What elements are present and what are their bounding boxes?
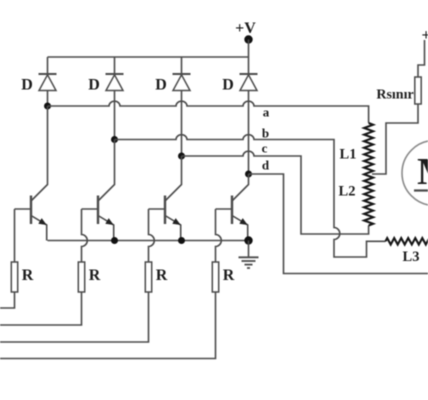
resistor R4 xyxy=(212,262,218,292)
wire phase a with hops, to coil L1 top xyxy=(48,101,369,123)
wire center tap to Rsinir bottom xyxy=(372,104,418,174)
svg-text:d: d xyxy=(262,158,270,173)
wire R4 to input 4 xyxy=(0,292,216,359)
resistor R3 xyxy=(145,262,151,292)
svg-text:L1: L1 xyxy=(340,147,357,163)
wire base Q2 down to resistor R2 (hop over emitter rail) xyxy=(82,209,88,262)
wire phase d to right edge xyxy=(249,174,428,274)
svg-text:+V: +V xyxy=(422,27,428,44)
diode D2 xyxy=(106,74,124,91)
diode D3 xyxy=(173,74,191,91)
wire emitter rail xyxy=(48,240,249,242)
wire base Q3 down to resistor R3 (hop over emitter rail) xyxy=(149,209,155,262)
svg-text:b: b xyxy=(262,126,269,141)
svg-text:M: M xyxy=(417,151,428,193)
svg-text:R: R xyxy=(223,267,235,284)
wire rail to diode D2 xyxy=(114,57,116,74)
svg-text:D: D xyxy=(155,77,167,94)
wire diode D1 to node a xyxy=(47,91,49,107)
wire R2 to input 2 xyxy=(0,292,82,325)
node emitter rail dot Q4 xyxy=(244,236,252,244)
ground xyxy=(239,241,259,269)
wire base Q4 down to resistor R4 (hop over emitter rail) xyxy=(216,209,222,262)
node emitter rail dot Q2 xyxy=(111,237,118,244)
svg-text:R: R xyxy=(89,267,101,284)
node a junction dot xyxy=(44,103,51,110)
wire base Q1 down to resistor R1 xyxy=(14,209,16,262)
motor M circle xyxy=(402,141,428,206)
wire phase c with hop, to coil L2 bottom xyxy=(182,151,369,234)
wire top supply rail xyxy=(48,56,249,58)
transistor Q3 xyxy=(149,156,182,241)
wire R1 to input 1 xyxy=(0,292,15,308)
svg-text:a: a xyxy=(263,105,270,120)
svg-text:R: R xyxy=(22,267,34,284)
node emitter rail dot Q3 xyxy=(178,237,185,244)
svg-text:L2: L2 xyxy=(339,184,356,200)
resistor Rsinir xyxy=(415,77,421,104)
wire rail to diode D3 xyxy=(181,57,183,74)
wire rail to diode D1 xyxy=(47,57,49,74)
svg-text:D: D xyxy=(222,77,234,94)
wire diode D3 to node c xyxy=(181,91,183,157)
transistor Q2 xyxy=(82,140,115,241)
svg-text:D: D xyxy=(21,77,33,94)
svg-text:+V: +V xyxy=(235,20,256,37)
inductor L3 zigzag xyxy=(386,238,428,244)
wire Rsinir top to +V right xyxy=(418,40,425,77)
node +V junction dot xyxy=(244,35,252,43)
svg-text:D: D xyxy=(88,77,100,94)
transistor Q1 xyxy=(15,106,48,241)
svg-text:Rsınır: Rsınır xyxy=(376,88,413,103)
node d junction dot xyxy=(245,171,252,178)
svg-text:R: R xyxy=(156,267,168,284)
wire diode D2 to node b xyxy=(114,91,116,140)
transistor Q4 xyxy=(216,174,249,241)
wire diode D4 to node d xyxy=(248,91,250,175)
resistor R2 xyxy=(78,262,84,292)
wire R3 to input 3 xyxy=(0,292,149,342)
wire +V down to top rail and diode D4 xyxy=(248,40,250,75)
node b junction dot xyxy=(111,136,118,143)
motor underline xyxy=(414,189,428,191)
wire phase b with hops, down to L3 lead xyxy=(115,135,386,257)
diode D1 xyxy=(39,74,57,91)
svg-text:L3: L3 xyxy=(403,249,420,265)
node c junction dot xyxy=(178,153,185,160)
svg-text:c: c xyxy=(262,141,268,156)
diode D4 xyxy=(240,74,258,91)
inductor L1 L2 winding zigzag xyxy=(364,123,373,226)
resistor R1 xyxy=(11,262,17,292)
